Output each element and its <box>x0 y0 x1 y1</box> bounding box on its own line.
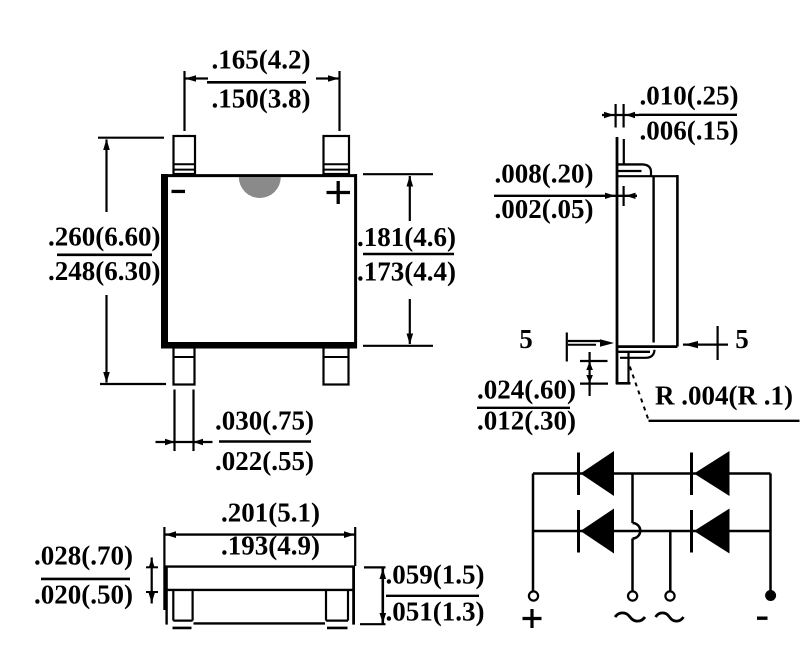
front body outline <box>165 566 167 625</box>
wire left rail to + terminal <box>532 474 535 592</box>
svg-text:.020(.50): .020(.50) <box>34 580 133 610</box>
terminal - (filled dot) <box>765 590 776 601</box>
lead outer face vertical <box>616 137 619 384</box>
terminal ~2 (open circle) <box>665 591 674 600</box>
body top edge <box>618 175 677 177</box>
radius callout leader (dashed) <box>630 367 648 419</box>
terminal + (open circle) <box>529 591 538 600</box>
top-left lead <box>174 136 196 174</box>
svg-text:.201(5.1): .201(5.1) <box>221 498 320 528</box>
wire bottom rail <box>533 530 771 533</box>
svg-text:.002(.05): .002(.05) <box>495 194 594 224</box>
lead bottom end cap <box>616 382 631 385</box>
plus marking <box>327 191 351 194</box>
body right face vertical <box>676 175 679 347</box>
svg-text:.024(.60): .024(.60) <box>477 375 576 405</box>
svg-text:.150(3.8): .150(3.8) <box>212 84 311 114</box>
lead length dimension ticks <box>580 360 608 362</box>
slab bottom line <box>165 589 354 591</box>
front left lead <box>172 590 174 621</box>
top dimension arrow stubs <box>186 77 209 79</box>
body bottom edge <box>617 345 677 348</box>
lead thickness dimension (top): line, ticks, arrows <box>602 114 639 116</box>
diode D4 (bottom-right) <box>690 510 693 553</box>
wire from top mid node down with hop over bottom rail <box>631 474 634 524</box>
terminal ~1 (open circle) <box>628 591 637 600</box>
standoff dimension arrows <box>605 193 615 199</box>
right dimension line with arrows <box>409 176 411 221</box>
bottom hook of lead <box>618 351 650 353</box>
svg-text:.165(4.2): .165(4.2) <box>212 45 311 75</box>
svg-text:5: 5 <box>735 324 749 354</box>
svg-text:.051(1.3): .051(1.3) <box>386 597 485 627</box>
minus symbol <box>757 617 768 620</box>
top-right lead <box>324 136 350 174</box>
tilde symbol 1 <box>615 613 645 621</box>
diode D2 (top-right) <box>690 453 693 496</box>
svg-text:.193(4.9): .193(4.9) <box>221 531 320 561</box>
svg-text:.030(.75): .030(.75) <box>215 406 314 436</box>
svg-text:.260(6.60): .260(6.60) <box>48 222 160 252</box>
svg-text:.181(4.6): .181(4.6) <box>357 222 456 252</box>
svg-text:.012(.30): .012(.30) <box>477 406 576 436</box>
bottom lead width dimension line with arrows <box>156 441 213 443</box>
svg-text:.028(.70): .028(.70) <box>34 541 133 571</box>
diode D1 (top-left) <box>577 453 580 496</box>
wire from bottom mid node to second ~ terminal <box>669 531 672 591</box>
svg-text:.173(4.4): .173(4.4) <box>357 257 456 287</box>
front height dimension bracket <box>381 567 384 624</box>
bottom-left lead <box>174 348 195 385</box>
polarity notch (gray semicircle) <box>239 177 281 198</box>
top hook of lead <box>618 163 642 165</box>
minus marking <box>172 190 186 193</box>
plus symbol <box>523 617 542 620</box>
front right lead <box>325 590 327 621</box>
wire top rail <box>533 472 771 475</box>
package body top edge <box>161 174 357 177</box>
front width dimension line with arrows <box>164 533 206 535</box>
svg-text:.008(.20): .008(.20) <box>495 159 594 189</box>
left dimension line with arrows <box>105 140 107 213</box>
left dimension extension lines <box>98 137 164 139</box>
svg-text:.010(.25): .010(.25) <box>640 81 739 111</box>
package body thick bottom edge <box>161 342 357 349</box>
svg-text:R .004(R .1): R .004(R .1) <box>655 381 793 411</box>
top dimension extension lines <box>183 71 185 131</box>
lead inner line top segment <box>623 139 625 164</box>
svg-text:.248(6.30): .248(6.30) <box>48 256 160 286</box>
svg-text:5: 5 <box>519 324 533 354</box>
svg-text:.022(.55): .022(.55) <box>215 446 314 476</box>
diode D3 (bottom-left) <box>577 510 580 553</box>
front left dimension marks <box>151 558 153 604</box>
body bottom edge between leads <box>194 622 326 624</box>
lead inner line bottom segment <box>627 352 629 382</box>
front width dimension extension lines <box>163 527 165 610</box>
package body right edge <box>354 174 357 348</box>
tilde symbol 2 <box>656 613 684 621</box>
bottom-right lead <box>324 348 349 385</box>
body inner vertical <box>652 176 654 343</box>
svg-text:.059(1.5): .059(1.5) <box>386 560 485 590</box>
right dimension extension lines <box>363 173 433 175</box>
bottom lead width dimension extension lines <box>173 390 175 452</box>
wire right rail to - terminal <box>769 474 772 591</box>
package body thick left edge <box>161 174 168 348</box>
svg-text:.006(.15): .006(.15) <box>640 116 739 146</box>
